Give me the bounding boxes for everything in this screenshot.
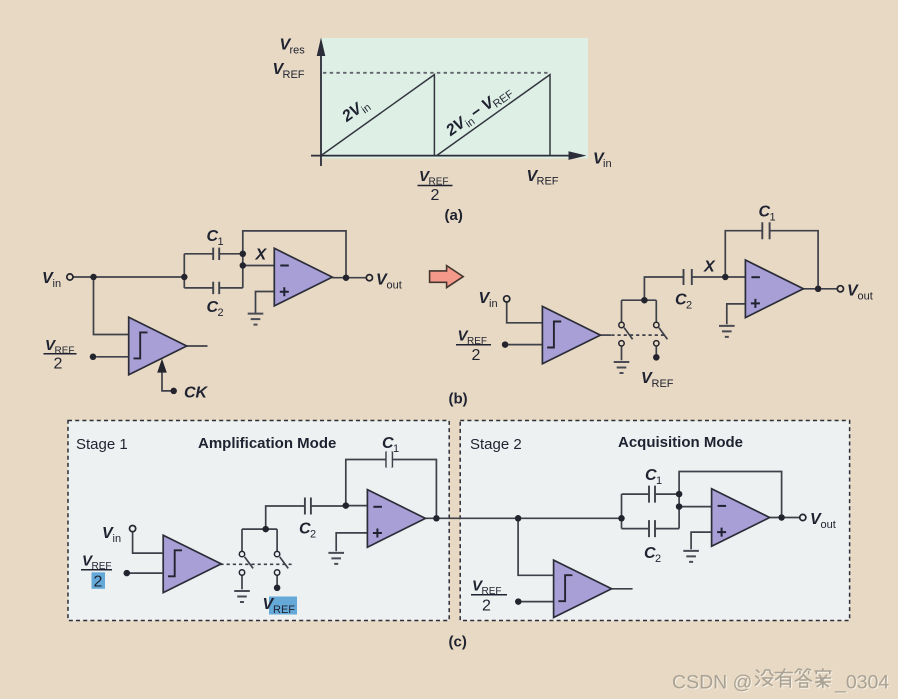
svg-text:1: 1 bbox=[393, 443, 399, 455]
svg-text:(c): (c) bbox=[449, 634, 467, 651]
svg-text:1: 1 bbox=[770, 212, 776, 224]
svg-text:X: X bbox=[703, 259, 716, 276]
svg-text:in: in bbox=[113, 533, 122, 545]
svg-text:out: out bbox=[858, 290, 873, 302]
svg-text:Stage 2: Stage 2 bbox=[470, 436, 522, 453]
svg-text:(b): (b) bbox=[449, 391, 468, 408]
svg-text:REF: REF bbox=[283, 69, 305, 81]
svg-text:2: 2 bbox=[482, 598, 491, 615]
svg-text:REF: REF bbox=[537, 176, 559, 188]
svg-text:CK: CK bbox=[184, 385, 209, 402]
svg-text:REF: REF bbox=[273, 604, 295, 616]
svg-text:(a): (a) bbox=[445, 207, 463, 224]
svg-text:res: res bbox=[290, 45, 306, 57]
svg-text:in: in bbox=[603, 158, 612, 170]
svg-text:2: 2 bbox=[472, 347, 481, 364]
svg-text:2: 2 bbox=[310, 529, 316, 541]
svg-text:Acquisition Mode: Acquisition Mode bbox=[618, 434, 743, 451]
svg-text:out: out bbox=[821, 519, 836, 531]
svg-text:2: 2 bbox=[655, 553, 661, 565]
svg-text:REF: REF bbox=[652, 378, 674, 390]
svg-text:2: 2 bbox=[94, 574, 103, 591]
svg-text:Amplification Mode: Amplification Mode bbox=[198, 435, 336, 452]
svg-text:1: 1 bbox=[218, 236, 224, 248]
svg-text:in: in bbox=[489, 298, 498, 310]
svg-text:2: 2 bbox=[431, 187, 440, 204]
svg-text:2: 2 bbox=[218, 307, 224, 319]
svg-text:1: 1 bbox=[656, 475, 662, 487]
svg-text:_0304: _0304 bbox=[834, 672, 889, 694]
svg-text:in: in bbox=[53, 278, 62, 290]
svg-text:CSDN @: CSDN @ bbox=[672, 672, 752, 694]
svg-text:X: X bbox=[255, 247, 268, 264]
svg-text:2: 2 bbox=[54, 356, 63, 373]
svg-text:out: out bbox=[387, 279, 402, 291]
svg-text:2: 2 bbox=[686, 300, 692, 312]
svg-text:Stage 1: Stage 1 bbox=[76, 436, 128, 453]
